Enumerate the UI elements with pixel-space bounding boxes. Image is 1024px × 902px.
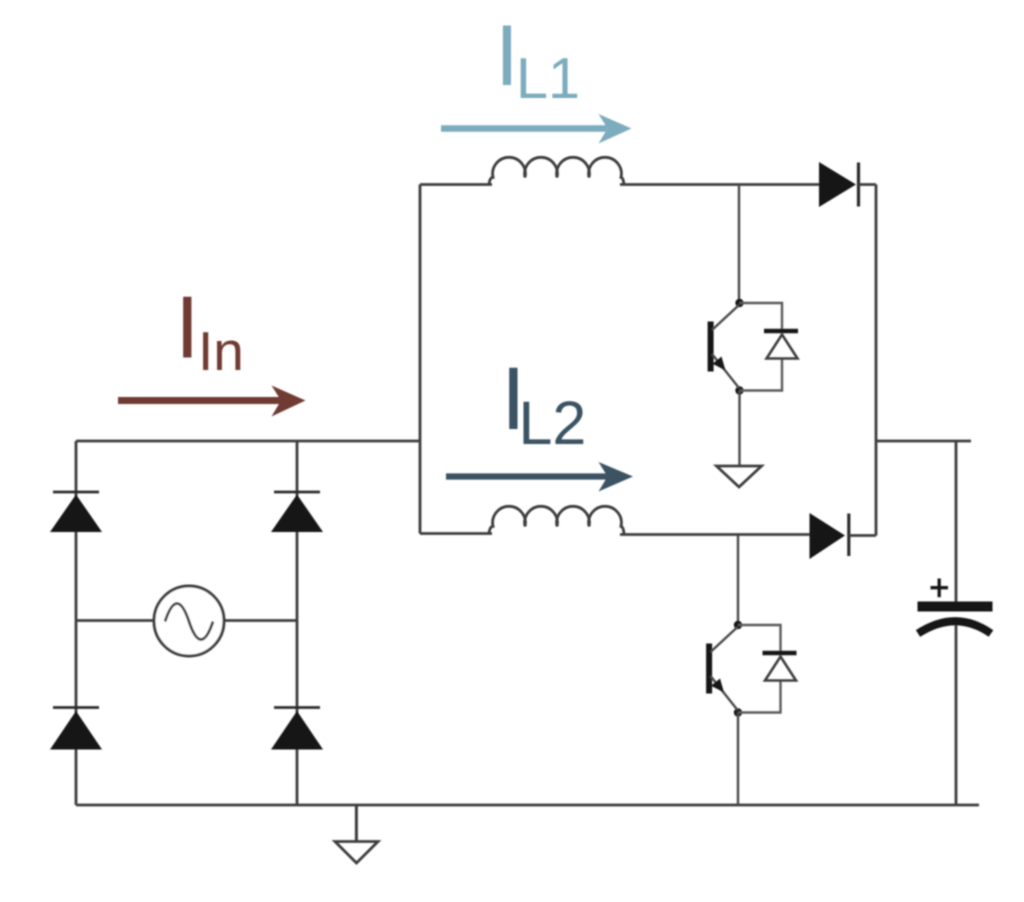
diode D7 (bridge lower-left) <box>50 708 102 750</box>
diode D8 (bridge lower-right) <box>271 708 323 750</box>
wire Q2 emitter to bottom rail <box>737 713 739 806</box>
wire AC middle left segment <box>76 619 154 622</box>
wire D4 cathode to right vertical <box>849 534 876 537</box>
capacitor C1 plus label <box>931 579 949 598</box>
AC source V1 <box>154 586 224 656</box>
wire AC middle right segment <box>224 619 297 622</box>
inductor L1 <box>489 157 624 184</box>
svg-text:In: In <box>198 320 244 382</box>
wire Q1 emitter to ground <box>738 391 740 466</box>
svg-text:L2: L2 <box>519 389 587 457</box>
wire bridge right vertical x=297 <box>296 441 299 805</box>
wire bottom loop left segment y=533.5 <box>420 532 492 535</box>
transistor Q1 (upper IGBT with antiparallel diode) <box>708 299 798 395</box>
inductor L2 <box>489 506 624 533</box>
wire from L1 to diode D3 <box>620 183 819 186</box>
ground (below Q1) <box>717 466 762 487</box>
ground (bottom rail) <box>335 805 378 863</box>
svg-text:L1: L1 <box>516 47 580 111</box>
capacitor C1 <box>918 602 993 634</box>
wire bridge left vertical x=76 <box>75 441 78 805</box>
wire top loop: top rail y=184.5 from x=420 to inductor <box>420 183 492 186</box>
label IL2 <box>501 348 586 457</box>
wire output branch y=441 from x=876 to 971 <box>876 440 971 443</box>
capacitor C1 bottom lead <box>955 625 958 805</box>
wire main input node y=441 from bridge to x=420 <box>76 440 420 443</box>
wire IGBT Q1 collector tap <box>738 185 740 304</box>
label IIn <box>175 278 244 383</box>
label IL1 <box>495 8 580 111</box>
wire D3 cathode to right vertical <box>859 183 877 186</box>
wire right vertical x=876 <box>875 185 878 536</box>
wire left vertical of loops x=420 <box>419 185 422 534</box>
diode D5 (bridge upper-left) <box>50 492 102 532</box>
svg-text:I: I <box>175 278 200 377</box>
arrow IIn <box>118 386 306 417</box>
wire from L2 to diode D4 <box>620 533 810 536</box>
diode D4 (bottom output diode) <box>810 513 849 559</box>
diode D3 (top output diode) <box>819 162 859 207</box>
wire bottom rail y=805 <box>76 804 979 807</box>
arrow IL1 <box>441 114 632 144</box>
transistor Q2 (lower IGBT with antiparallel diode) <box>706 621 796 717</box>
diode D6 (bridge upper-right) <box>271 492 323 532</box>
capacitor C1 top lead <box>955 441 958 602</box>
wire IGBT Q2 collector tap <box>737 536 739 626</box>
arrow IL2 <box>446 462 633 492</box>
